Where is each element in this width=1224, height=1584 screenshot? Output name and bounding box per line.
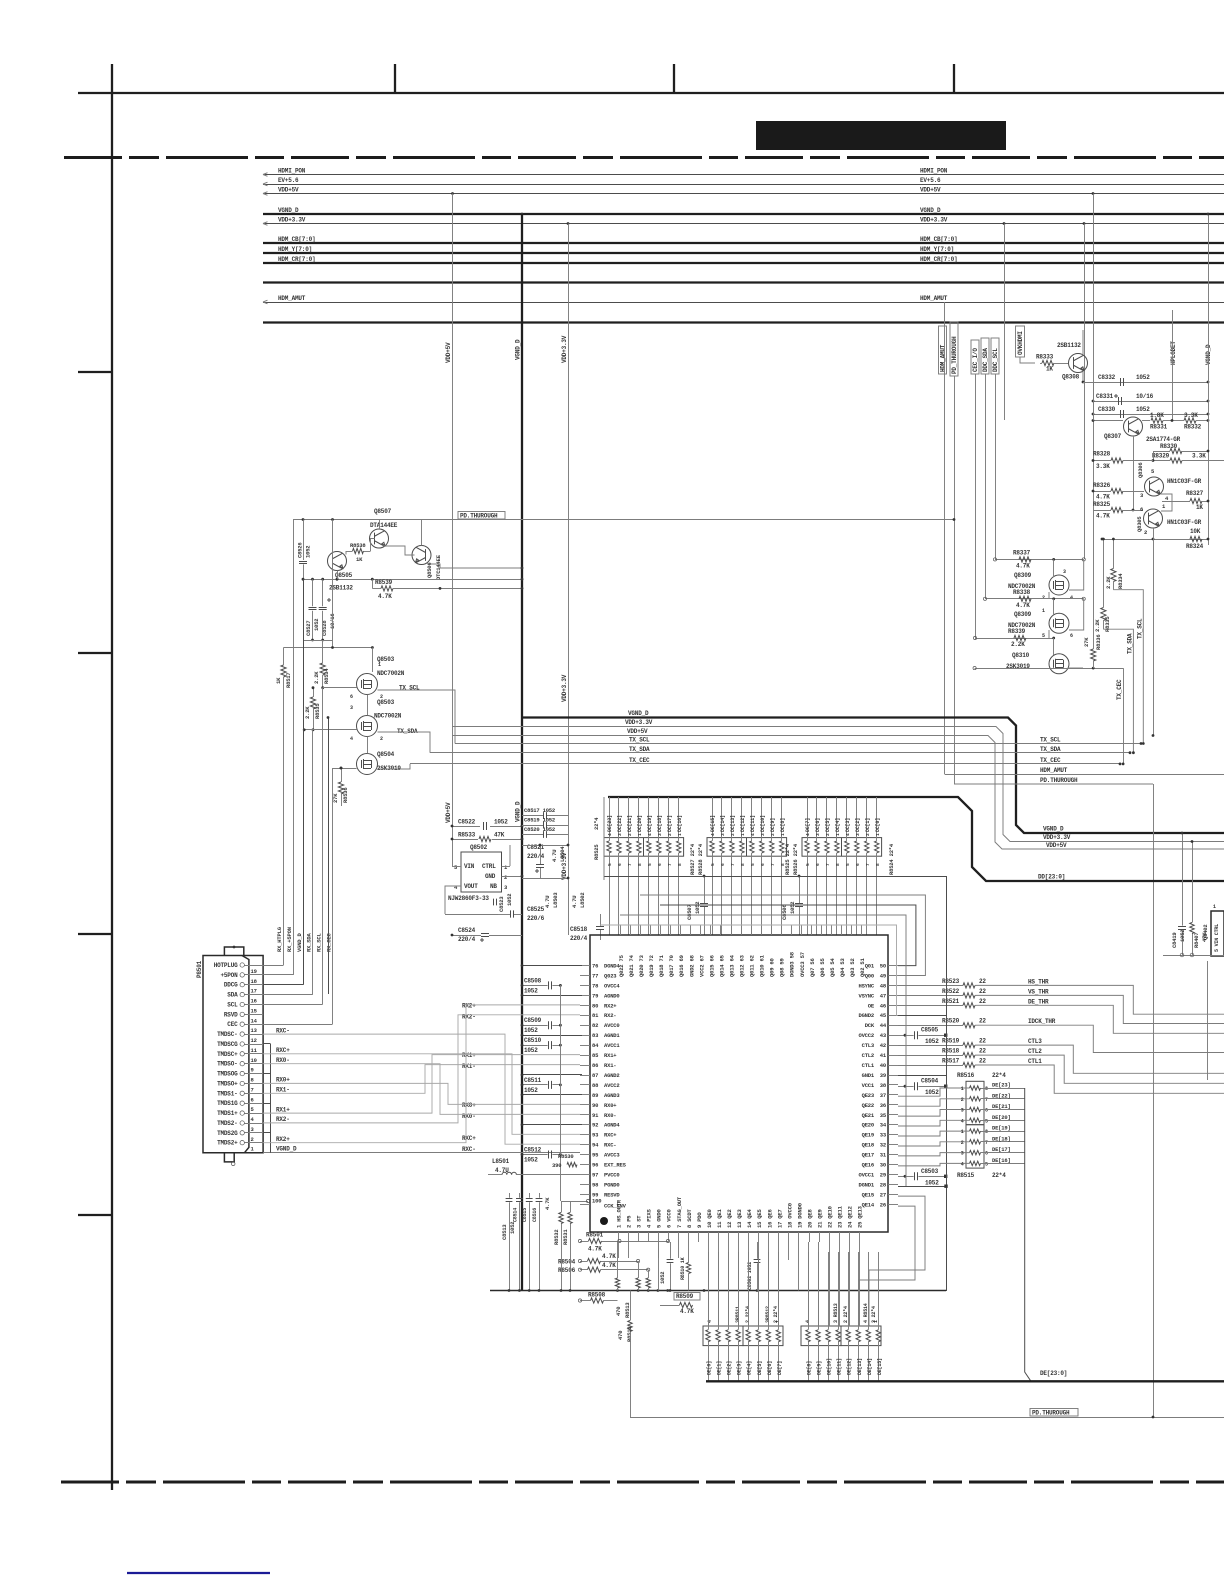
resistor network R8514 box <box>841 1326 881 1346</box>
resistor pin4 pulldown <box>646 1278 650 1288</box>
svg-text:RXC-: RXC- <box>276 1027 290 1034</box>
svg-text:HDM_AMUT: HDM_AMUT <box>920 295 948 302</box>
resistor R8527 element DC[14] <box>720 841 724 853</box>
svg-text:14: 14 <box>251 1017 258 1024</box>
svg-text:3: 3 <box>350 705 353 711</box>
resistor array element DE[12] <box>846 1330 850 1342</box>
svg-text:P8501: P8501 <box>196 960 203 978</box>
pin 26 QE14 <box>888 1204 898 1206</box>
svg-text:8: 8 <box>740 863 746 866</box>
svg-text:RXC+: RXC+ <box>276 1047 290 1054</box>
svg-text:18 OVCC0: 18 OVCC0 <box>786 1203 793 1228</box>
wire DE[23] <box>981 1088 1025 1090</box>
svg-text:1052: 1052 <box>524 1087 538 1094</box>
svg-text:2: 2 <box>251 1136 254 1143</box>
wire QE13 drop <box>859 1242 861 1326</box>
wire DE_THR staircase <box>975 1005 1224 1033</box>
resistor R8525 element DC[19] <box>647 841 651 853</box>
svg-text:1: 1 <box>835 833 841 836</box>
svg-text:HDM_Y[7:0]: HDM_Y[7:0] <box>278 246 312 253</box>
svg-text:R8519: R8519 <box>942 1038 960 1045</box>
svg-text:1: 1 <box>961 1129 964 1135</box>
svg-text:VGND_D: VGND_D <box>276 1146 297 1153</box>
svg-text:Q8502: Q8502 <box>470 844 488 851</box>
svg-text:19 DGND0: 19 DGND0 <box>796 1203 803 1228</box>
svg-text:DE[11]: DE[11] <box>837 1358 843 1375</box>
wire RX0- pair <box>263 1064 580 1115</box>
pin 64 Q013 <box>731 925 733 935</box>
svg-text:CTL1: CTL1 <box>1028 1058 1042 1065</box>
svg-text:1052: 1052 <box>789 902 796 914</box>
svg-text:R8336: R8336 <box>1095 634 1102 650</box>
svg-text:48: 48 <box>880 982 887 989</box>
pin 2 P5 <box>628 1232 630 1242</box>
svg-text:DE[3]: DE[3] <box>737 1361 743 1375</box>
svg-text:93: 93 <box>592 1132 599 1139</box>
svg-text:DC[23]: DC[23] <box>607 815 613 832</box>
svg-text:5 GND0: 5 GND0 <box>656 1209 663 1228</box>
wire DC[11] top <box>751 797 753 841</box>
svg-text:2.2K: 2.2K <box>313 671 320 684</box>
wire bus HDMI_PON <box>263 174 1224 176</box>
wire C8331 row <box>1093 401 1208 403</box>
svg-text:C8524: C8524 <box>458 927 476 934</box>
svg-text:DE[9]: DE[9] <box>817 1361 823 1375</box>
svg-text:DC[2]: DC[2] <box>855 818 861 832</box>
wire DE[9] top <box>818 1252 820 1330</box>
svg-text:DGND3 58: DGND3 58 <box>789 951 796 977</box>
svg-text:7: 7 <box>627 863 633 866</box>
svg-text:DGND1: DGND1 <box>858 1181 874 1188</box>
svg-text:NB: NB <box>490 883 497 890</box>
wire HPLGDET vertical <box>1172 310 1174 421</box>
svg-text:7: 7 <box>825 863 831 866</box>
svg-text:2: 2 <box>504 874 507 881</box>
svg-text:23 QE11: 23 QE11 <box>837 1205 844 1228</box>
pin 78 OVCC4 <box>580 985 590 987</box>
wire DC[11] bottom <box>751 853 753 935</box>
svg-text:HPLGDET: HPLGDET <box>1170 341 1177 365</box>
wire CTL2 staircase <box>975 1055 1224 1083</box>
resistor R8535 2.2K vertical <box>310 697 315 709</box>
pin 71 Q018 <box>660 925 662 935</box>
svg-text:R8327: R8327 <box>1186 490 1204 497</box>
svg-text:40: 40 <box>880 1062 886 1069</box>
svg-text:R8521: R8521 <box>942 998 960 1005</box>
wire right column x1207 <box>1207 961 1209 1080</box>
svg-text:4: 4 <box>607 833 613 836</box>
resistor R8506 4.7K <box>588 1267 601 1272</box>
svg-text:DE[12]: DE[12] <box>847 1358 853 1375</box>
wire Q8310 source <box>1069 667 1083 669</box>
wire R8517 stem <box>283 648 285 666</box>
svg-text:R8536: R8536 <box>342 787 349 803</box>
pin 60 Q09 <box>771 925 773 935</box>
wire cluster left rail <box>1093 382 1095 421</box>
svg-text:1K: 1K <box>356 556 363 563</box>
wire DE[4] top <box>748 1252 750 1330</box>
resistor network R8525 box <box>604 838 684 857</box>
wire DC[12] bottom <box>741 853 743 935</box>
svg-text:5: 5 <box>985 1118 988 1124</box>
svg-text:22: 22 <box>979 988 986 995</box>
svg-text:1: 1 <box>378 662 381 668</box>
svg-text:TMDS2-: TMDS2- <box>217 1120 237 1127</box>
svg-text:RSVD: RSVD <box>224 1011 238 1018</box>
svg-text:HDM_CB[7:0]: HDM_CB[7:0] <box>920 236 957 243</box>
svg-text:DE[17]: DE[17] <box>992 1146 1011 1153</box>
svg-text:TMDS1+: TMDS1+ <box>217 1110 238 1117</box>
pin 57 OVCC3 <box>801 925 803 935</box>
wire AGND3 row <box>522 1094 582 1096</box>
svg-text:45: 45 <box>880 1012 887 1019</box>
svg-text:12 QE2: 12 QE2 <box>726 1209 733 1228</box>
wire DC[15] bottom <box>712 853 714 935</box>
pin 77 Q023 <box>580 975 590 977</box>
svg-text:13: 13 <box>251 1027 258 1034</box>
svg-text:17 QE7: 17 QE7 <box>776 1209 783 1228</box>
svg-text:97: 97 <box>592 1172 598 1179</box>
svg-text:CEC: CEC <box>227 1021 238 1028</box>
svg-text:Q8309: Q8309 <box>1014 572 1032 579</box>
svg-text:Q8402: Q8402 <box>1202 924 1209 940</box>
svg-text:1052: 1052 <box>659 1272 666 1284</box>
wire R8536 stem <box>341 768 343 782</box>
resistor array element DE[5] <box>756 1330 760 1342</box>
svg-text:R8328: R8328 <box>1093 451 1111 458</box>
border frame top line <box>78 92 1224 94</box>
pin 45 DGND2 <box>888 1015 898 1017</box>
svg-text:3 22*4: 3 22*4 <box>871 1306 877 1323</box>
wire DE[7] bottom <box>778 1342 780 1382</box>
pin 53 Q04 <box>841 925 843 935</box>
svg-text:TX_SCL: TX_SCL <box>1137 618 1144 639</box>
wire OVCC0 drop <box>788 1242 790 1260</box>
resistor DE[21] element <box>970 1107 981 1111</box>
pin 67 VCC2 <box>700 925 702 935</box>
svg-text:78: 78 <box>592 982 599 989</box>
wire DC[5] bottom <box>826 853 828 935</box>
left border line <box>111 64 113 1490</box>
resistor network R8516 box <box>966 1081 984 1124</box>
transistor Q8305 HN1C03F-GR <box>1144 509 1163 528</box>
resistor network R8527 box <box>707 838 787 857</box>
svg-text:1: 1 <box>1213 904 1216 910</box>
pin 21 QE9 <box>819 1232 821 1242</box>
svg-text:DC[22]: DC[22] <box>617 815 623 832</box>
wire AVCC rail x560 <box>560 985 562 1201</box>
svg-text:3.3K: 3.3K <box>1096 463 1110 470</box>
wire DC[8] top <box>781 797 783 841</box>
resistor R8524 element DC[6] <box>815 841 819 853</box>
resistor array element DE[1] <box>716 1330 720 1342</box>
resistor R8525 element DC[18] <box>657 841 661 853</box>
svg-text:R8333: R8333 <box>1036 354 1054 361</box>
wire Q8502 pin1 <box>502 866 511 868</box>
svg-text:RX1-: RX1- <box>462 1063 476 1070</box>
svg-text:RX1-: RX1- <box>604 1062 616 1069</box>
svg-text:AVCC2: AVCC2 <box>604 1082 620 1089</box>
wire bus TX_CEC <box>410 763 1120 765</box>
wire DE[5] top <box>758 1252 760 1330</box>
svg-text:TMDSC+: TMDSC+ <box>217 1051 238 1058</box>
svg-text:44: 44 <box>880 1022 887 1029</box>
wire QE11 drop <box>839 1242 841 1326</box>
svg-text:2.2K: 2.2K <box>304 706 311 719</box>
svg-text:28: 28 <box>880 1181 887 1188</box>
wire Q8308 collector <box>1082 371 1084 382</box>
svg-text:Q04 53: Q04 53 <box>839 957 846 977</box>
svg-text:17: 17 <box>251 988 257 995</box>
transistor Q8505 2SB1132 <box>328 552 347 571</box>
svg-text:TMDSOG: TMDSOG <box>217 1071 238 1078</box>
svg-text:4: 4 <box>454 884 458 891</box>
wire DE[14] bottom <box>868 1342 870 1382</box>
svg-text:DE[7]: DE[7] <box>777 1361 783 1375</box>
svg-text:R8532: R8532 <box>553 1229 560 1245</box>
transistor Q8309 NDC7002N b <box>1049 613 1069 633</box>
transistor Q8503 NDC7002N 2 <box>357 716 378 737</box>
wire HDM_AMUT vertical <box>944 302 946 774</box>
wire DC[9] bottom <box>771 853 773 935</box>
wire RX_CEC <box>263 1024 332 1026</box>
resistor R8527 element DC[9] <box>770 841 774 853</box>
resistor array element DE[8] <box>806 1330 810 1342</box>
svg-text:3.3K: 3.3K <box>1192 453 1206 460</box>
resistor DE[16] element <box>970 1161 981 1165</box>
wire Q8307 emitter down <box>1133 436 1135 510</box>
svg-text:PD.THUROUGH: PD.THUROUGH <box>1040 777 1078 784</box>
svg-text:R8520: R8520 <box>942 1018 960 1025</box>
resistor R8527 element DC[11] <box>750 841 754 853</box>
svg-text:14 QE4: 14 QE4 <box>746 1208 753 1228</box>
svg-text:OVKHDMI: OVKHDMI <box>1017 331 1024 355</box>
svg-text:TX_SCL: TX_SCL <box>629 737 650 744</box>
svg-text:12: 12 <box>251 1037 257 1044</box>
resistor array element DE[14] <box>866 1330 870 1342</box>
svg-text:3: 3 <box>1140 492 1144 499</box>
svg-text:94: 94 <box>592 1142 599 1149</box>
svg-text:Q019 72: Q019 72 <box>648 955 655 977</box>
svg-text:30: 30 <box>880 1162 886 1169</box>
wire DC[6] top <box>816 797 818 841</box>
svg-text:1K: 1K <box>275 677 282 684</box>
pin 34 QE20 <box>888 1124 898 1126</box>
svg-text:80: 80 <box>592 1002 598 1009</box>
wire VDD+3.3V right drop <box>1003 222 1006 225</box>
wire DC[1] bottom <box>866 853 868 935</box>
wire bus HDM_Y[7:0] <box>263 252 1224 254</box>
svg-text:19: 19 <box>251 968 257 975</box>
capacitor C8502 1052 <box>754 1259 761 1261</box>
resistor network R8512 box <box>743 1326 783 1346</box>
svg-text:96: 96 <box>592 1162 598 1169</box>
svg-text:6: 6 <box>1140 506 1143 513</box>
svg-text:VS_THR: VS_THR <box>1028 988 1049 995</box>
wire DE[11] bottom <box>838 1342 840 1382</box>
resistor R8508 <box>591 1298 604 1303</box>
pin 49 Q00 <box>888 975 898 977</box>
svg-text:8: 8 <box>985 1129 988 1135</box>
wire VOUT to C8525 <box>445 914 498 916</box>
pin 89 AGND3 <box>580 1094 590 1096</box>
svg-text:Q03 52: Q03 52 <box>849 958 856 977</box>
svg-text:R8526 22*4: R8526 22*4 <box>792 843 799 875</box>
svg-text:RX0-: RX0- <box>276 1057 290 1064</box>
svg-text:10/16: 10/16 <box>1136 393 1154 400</box>
pin 70 Q017 <box>670 925 672 935</box>
wire cluster bottom rail <box>1102 539 1208 541</box>
wire DE[9] bottom <box>818 1342 820 1382</box>
pin 63 Q012 <box>741 925 743 935</box>
svg-text:R8506: R8506 <box>558 1267 576 1274</box>
svg-text:220/6: 220/6 <box>527 915 545 922</box>
svg-text:VSYNC: VSYNC <box>858 992 874 999</box>
wire bus HDM_AMUT <box>263 302 1224 304</box>
svg-text:HDMI_PON: HDMI_PON <box>278 167 306 174</box>
resistor R8332 3.3K <box>1184 418 1196 423</box>
svg-text:15: 15 <box>251 1008 258 1015</box>
wire TX_CEC up <box>1123 668 1125 764</box>
svg-text:2: 2 <box>730 833 736 836</box>
wire C8528 stem <box>322 579 324 606</box>
svg-text:91: 91 <box>592 1112 599 1119</box>
wire rail4 <box>284 647 373 649</box>
svg-text:DE[2]: DE[2] <box>727 1361 733 1375</box>
wire comb mid rail <box>604 876 946 878</box>
svg-text:AGND2: AGND2 <box>604 1072 620 1079</box>
svg-text:22: 22 <box>979 1058 986 1065</box>
zone tick y1215 <box>78 1214 112 1216</box>
resistor R8324 10K <box>1190 536 1202 541</box>
wire Q8505 collector <box>345 551 347 555</box>
svg-text:R8504: R8504 <box>558 1259 576 1266</box>
svg-text:DE[13]: DE[13] <box>857 1358 863 1375</box>
svg-text:Q021 74: Q021 74 <box>628 954 635 977</box>
svg-text:5: 5 <box>607 863 613 866</box>
resistor R8532 4.7K vertical <box>559 1213 563 1224</box>
svg-text:7: 7 <box>865 863 871 866</box>
svg-text:VGND_D: VGND_D <box>920 207 941 214</box>
svg-text:Q8506: Q8506 <box>426 562 433 578</box>
wire VDD+5V right drop <box>1092 192 1095 195</box>
resistor R8524 element DC[0] <box>875 841 879 853</box>
svg-text:2: 2 <box>825 833 831 836</box>
resistor R8527 element DC[13] <box>730 841 734 853</box>
resistor R8325 4.7K <box>1111 507 1123 512</box>
svg-text:TMDS2+: TMDS2+ <box>217 1140 238 1147</box>
svg-text:R8508: R8508 <box>588 1292 606 1299</box>
svg-text:HDM_CR[7:0]: HDM_CR[7:0] <box>920 256 957 263</box>
pin 13 QE3 <box>738 1232 740 1242</box>
svg-text:RXC-: RXC- <box>604 1142 616 1149</box>
svg-text:6: 6 <box>657 863 663 866</box>
svg-text:OVCC4: OVCC4 <box>604 982 620 989</box>
resistor network R8515 box <box>966 1125 984 1168</box>
wire QE right return rail <box>945 1290 947 1292</box>
svg-text:4.7K: 4.7K <box>1016 602 1030 609</box>
svg-text:Q010 61: Q010 61 <box>759 954 766 977</box>
svg-text:R8326: R8326 <box>1093 482 1111 489</box>
svg-text:DDC_SCL: DDC_SCL <box>992 348 999 372</box>
svg-text:Q022 75: Q022 75 <box>618 954 625 977</box>
wire DC[15] top <box>712 797 714 841</box>
svg-text:5: 5 <box>805 863 811 866</box>
wire Q8503a drain right <box>378 690 456 744</box>
resistor R8327 1K <box>1190 498 1202 503</box>
svg-text:DTA144EE: DTA144EE <box>370 522 398 529</box>
pin 54 Q05 <box>831 925 833 935</box>
svg-text:4.7K: 4.7K <box>1016 563 1030 570</box>
svg-text:220/4: 220/4 <box>570 935 588 942</box>
wire QE4 drop <box>748 1242 750 1326</box>
svg-text:NDC7002N: NDC7002N <box>374 713 402 720</box>
wire Q8502 ctrl link <box>509 845 511 866</box>
wire PD_THROUGH right drop <box>1153 784 1155 1417</box>
svg-text:2: 2 <box>865 833 871 836</box>
wire Q8305 emitter down <box>1153 528 1155 539</box>
svg-text:10 QE0: 10 QE0 <box>706 1209 713 1228</box>
pin 55 Q06 <box>821 925 823 935</box>
resistor R8538 1K <box>353 548 364 553</box>
pin 73 Q020 <box>640 925 642 935</box>
resistor R8504 4.7K <box>588 1258 601 1263</box>
svg-text:Q02 51: Q02 51 <box>859 957 866 977</box>
IC Q8402 regulator partial <box>1211 911 1224 956</box>
svg-text:HDM_AMUT: HDM_AMUT <box>278 295 306 302</box>
resistor pin3 pulldown <box>636 1278 640 1288</box>
pin 37 QE23 <box>888 1094 898 1096</box>
pin 50 Q01 <box>888 965 898 967</box>
wire Q8505 emitter down <box>337 571 339 580</box>
pin 100 CCK_INV <box>580 1204 590 1206</box>
wire DC[0] top <box>876 797 878 841</box>
svg-text:6: 6 <box>855 863 861 866</box>
svg-text:89: 89 <box>592 1092 598 1099</box>
wire DE[6] bottom <box>768 1342 770 1382</box>
svg-text:5: 5 <box>985 1161 988 1167</box>
pin 3 ST <box>638 1232 640 1242</box>
resistor R8517 1K vertical <box>281 665 286 677</box>
svg-text:R8539: R8539 <box>375 579 393 586</box>
wire Q8502 pin5 <box>452 866 461 868</box>
svg-text:3.3K: 3.3K <box>1184 412 1198 419</box>
svg-text:QE18: QE18 <box>862 1142 875 1149</box>
wire AGND4 row <box>522 1124 582 1126</box>
svg-text:7: 7 <box>985 1097 988 1103</box>
svg-text:4: 4 <box>750 833 756 836</box>
svg-text:DC[8]: DC[8] <box>780 818 786 832</box>
svg-text:Q015 66: Q015 66 <box>708 955 715 977</box>
svg-text:R8516: R8516 <box>957 1072 975 1079</box>
pin 16 QE6 <box>768 1232 770 1242</box>
svg-text:1052: 1052 <box>509 1222 516 1234</box>
svg-text:R8527 22*4: R8527 22*4 <box>689 843 696 875</box>
wire RX_CEC column <box>332 768 334 1024</box>
wire DE[6] top <box>768 1252 770 1330</box>
resistor array element DE[0] <box>706 1330 710 1342</box>
svg-text:3R8511: 3R8511 <box>735 1306 741 1323</box>
wire DC[20] top <box>638 797 640 841</box>
svg-text:DGND2: DGND2 <box>858 1012 874 1019</box>
svg-text:2 P5: 2 P5 <box>626 1215 633 1228</box>
svg-text:C8332: C8332 <box>1098 374 1116 381</box>
svg-text:RX2-: RX2- <box>604 1012 616 1019</box>
wire VGND_D drop <box>521 213 524 216</box>
svg-text:C8525: C8525 <box>527 906 545 913</box>
resistor R8333 <box>1042 360 1054 365</box>
svg-text:1.8K: 1.8K <box>1150 412 1164 419</box>
